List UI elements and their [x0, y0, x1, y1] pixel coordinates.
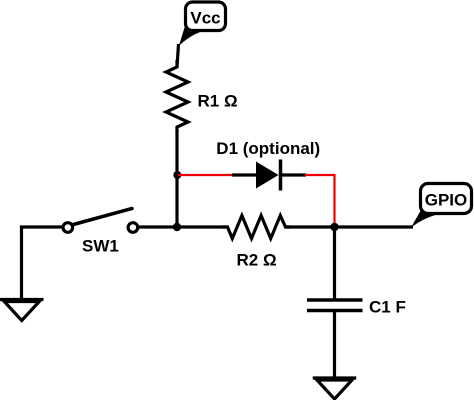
svg-text:C1 F: C1 F [369, 298, 406, 317]
ground (right) [313, 378, 357, 399]
junction dot (GPIO / C1 node) [330, 223, 338, 231]
R2 value label [237, 251, 277, 270]
wire C1 to right ground [333, 311, 336, 379]
node junction dot (R1 / diode branch) [173, 171, 181, 179]
ground (left) [0, 300, 44, 321]
junction dot (switch row / R1 column) [173, 223, 181, 231]
svg-text:Vcc: Vcc [190, 9, 220, 28]
R1 value label [198, 92, 238, 111]
C1 value label [369, 298, 406, 317]
switch SW1 [63, 209, 138, 233]
svg-text:GPIO: GPIO [425, 191, 468, 210]
svg-text:R1 Ω: R1 Ω [198, 92, 238, 111]
wire R2 to GPIO flag [286, 225, 414, 228]
SW1 label [82, 236, 119, 255]
svg-text:D1 (optional): D1 (optional) [216, 139, 320, 158]
wire (red) diode cathode to GPIO node [305, 175, 335, 226]
diode D1 [232, 160, 306, 191]
wire (red) node to diode anode [178, 174, 233, 176]
GPIO net flag [411, 184, 472, 228]
wire GPIO node down to C1 [333, 226, 336, 299]
D1 value label [216, 139, 320, 158]
resistor R2 [222, 216, 291, 239]
wire switch to R2 [138, 225, 228, 228]
Vcc net flag [179, 2, 226, 46]
svg-text:R2 Ω: R2 Ω [237, 251, 277, 270]
resistor R1 [166, 60, 188, 132]
capacitor C1 [307, 300, 363, 311]
wire left ground to switch SW1 [22, 227, 64, 298]
wire R1 to main node [175, 130, 178, 227]
svg-text:SW1: SW1 [82, 236, 119, 255]
wire Vcc flag to R1 [177, 44, 179, 67]
